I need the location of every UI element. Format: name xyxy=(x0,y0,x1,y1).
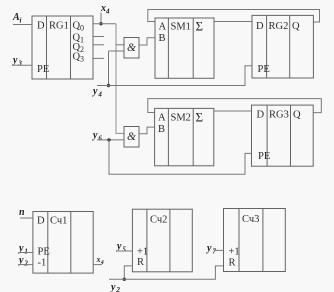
svg-text:x: x xyxy=(96,255,101,264)
node bus junction xyxy=(123,278,126,281)
svg-text:1: 1 xyxy=(24,248,28,256)
svg-text:3: 3 xyxy=(80,55,84,64)
wire AND1 output to SM1 B xyxy=(139,38,155,45)
input label y6 xyxy=(92,130,102,143)
counter C3 xyxy=(224,209,286,272)
wire RG1 Q0 output xyxy=(93,23,116,25)
svg-text:+1: +1 xyxy=(229,247,240,258)
wire y4 vertical to AND1 xyxy=(108,51,110,86)
svg-text:A: A xyxy=(159,22,167,33)
svg-text:SM2: SM2 xyxy=(171,113,191,124)
svg-text:y: y xyxy=(92,86,98,97)
node x4/Q0 junction xyxy=(99,22,102,25)
svg-text:Сч2: Сч2 xyxy=(150,215,167,226)
node y6 junction xyxy=(107,138,110,141)
input label y2 xyxy=(18,255,28,268)
svg-text:y: y xyxy=(12,55,18,66)
output label x4 of C1 xyxy=(96,255,104,266)
input label y2 bus xyxy=(110,282,120,292)
wire x4 vertical drop xyxy=(100,13,102,24)
svg-text:n: n xyxy=(19,207,25,218)
svg-text:y: y xyxy=(116,241,122,252)
wire Q0 node vertical to AND2 xyxy=(116,24,124,134)
svg-text:4: 4 xyxy=(97,91,102,99)
wire y2 to C1 -1 input xyxy=(19,264,33,266)
svg-text:SM1: SM1 xyxy=(171,22,191,33)
svg-text:y: y xyxy=(206,243,212,254)
wire y1 to C1 PE xyxy=(19,252,33,254)
register RG3 xyxy=(252,105,314,166)
svg-text:3: 3 xyxy=(17,60,22,68)
counter C2 xyxy=(132,209,192,272)
svg-text:Q: Q xyxy=(293,110,301,121)
svg-text:PE: PE xyxy=(37,64,49,75)
svg-text:&: & xyxy=(127,42,136,54)
svg-text:-1: -1 xyxy=(38,258,47,269)
svg-text:A: A xyxy=(158,113,166,124)
input label y3 xyxy=(12,55,22,68)
wire RG2 Q feedback to SM1 A xyxy=(148,10,320,23)
wire RG1 Q1 stub xyxy=(93,36,104,38)
svg-text:B: B xyxy=(158,124,165,135)
wire y5 to C2 +1 xyxy=(118,250,132,252)
input label y1 xyxy=(18,243,28,256)
wire Ai to RG1 D input xyxy=(13,24,32,26)
wire RG1 Q3 stub xyxy=(93,57,104,59)
wire y2 bus to C3 R xyxy=(109,266,224,279)
svg-text:RG1: RG1 xyxy=(49,21,69,32)
svg-text:&: & xyxy=(127,131,136,143)
svg-text:D: D xyxy=(256,21,264,32)
svg-text:5: 5 xyxy=(122,246,126,254)
input label y5 xyxy=(116,241,126,254)
svg-text:Σ: Σ xyxy=(196,19,204,34)
svg-text:2: 2 xyxy=(80,45,84,54)
input label x4 xyxy=(100,3,110,16)
svg-text:PE: PE xyxy=(38,247,50,258)
svg-text:y: y xyxy=(92,130,98,141)
svg-text:0: 0 xyxy=(80,24,84,33)
svg-text:Сч3: Сч3 xyxy=(242,214,259,225)
svg-text:PE: PE xyxy=(258,151,270,162)
wire SM2 sum to RG3 D xyxy=(214,110,252,112)
svg-text:4: 4 xyxy=(105,8,110,16)
svg-text:2: 2 xyxy=(115,286,120,292)
wire RG3 Q feedback to SM2 A xyxy=(148,99,321,113)
register RG1 xyxy=(32,16,93,79)
wire y3 to RG1 PE input xyxy=(13,64,32,66)
svg-text:D: D xyxy=(37,21,45,32)
register RG2 xyxy=(252,15,313,78)
svg-text:PE: PE xyxy=(258,64,270,75)
svg-text:RG2: RG2 xyxy=(269,21,289,32)
wire C1 output stub xyxy=(93,264,102,266)
adder SM1 xyxy=(155,18,214,78)
wire y6 to RG3 PE xyxy=(109,140,252,174)
svg-text:B: B xyxy=(159,33,166,44)
wire SM1 sum to RG2 D xyxy=(214,21,252,23)
wire C2 R to bus xyxy=(124,266,132,279)
svg-text:R: R xyxy=(229,258,236,269)
counter C1 xyxy=(33,212,93,274)
wire y7 to C3 +1 xyxy=(214,249,224,251)
wire RG1 Q2 stub xyxy=(93,44,104,46)
and-gate U2 xyxy=(124,127,139,148)
wire tap to AND1 top input xyxy=(116,44,124,46)
svg-text:2: 2 xyxy=(23,260,28,268)
svg-text:D: D xyxy=(37,216,45,227)
input label y7 xyxy=(206,243,216,256)
wire AND1 bottom input xyxy=(109,50,125,52)
wire y6 to AND2 bottom input xyxy=(97,139,124,141)
svg-text:RG3: RG3 xyxy=(269,110,289,121)
svg-text:6: 6 xyxy=(98,135,102,143)
wire y4 bus to RG2 PE xyxy=(97,66,252,86)
svg-text:1: 1 xyxy=(80,36,84,45)
svg-text:R: R xyxy=(137,257,144,268)
svg-text:D: D xyxy=(257,110,265,121)
wire AND2 output to SM2 B xyxy=(139,127,155,134)
svg-text:Q: Q xyxy=(292,21,300,32)
svg-text:7: 7 xyxy=(212,248,216,256)
input label Ai xyxy=(12,12,22,25)
svg-text:+1: +1 xyxy=(137,247,148,258)
svg-text:y: y xyxy=(110,282,116,292)
input label y4 xyxy=(92,86,102,99)
svg-text:Σ: Σ xyxy=(196,110,204,125)
wire n to C1 D xyxy=(20,217,33,219)
svg-text:i: i xyxy=(20,17,22,25)
node y4 junction xyxy=(107,84,110,87)
adder SM2 xyxy=(155,108,214,165)
and-gate U1 xyxy=(124,38,139,59)
svg-text:Сч1: Сч1 xyxy=(50,216,67,227)
